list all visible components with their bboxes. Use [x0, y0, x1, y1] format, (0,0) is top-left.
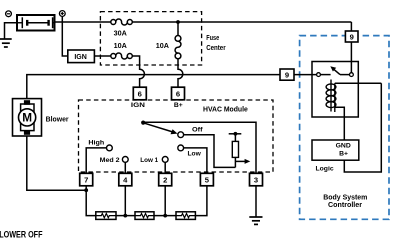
svg-text:Controller: Controller: [328, 202, 362, 209]
wire coil top to B+ rail: [335, 82, 382, 84]
wire module resistor top lead: [234, 134, 236, 142]
node module resistor top: [234, 132, 238, 136]
wire module resistor bottom lead: [234, 157, 236, 167]
resistor R3: [176, 212, 195, 220]
module resistor (speed control): [232, 141, 238, 157]
wire Off contact to module resistor: [184, 135, 236, 168]
wire coil bottom to logic module: [335, 107, 345, 140]
relay armature: [334, 69, 340, 74]
node junction blower/pin7: [84, 188, 88, 192]
wire switch pivot to pin 3: [143, 122, 256, 173]
svg-text:Blower: Blower: [46, 115, 69, 124]
fuse 10A (IGN): [111, 53, 133, 59]
svg-text:7: 7: [84, 176, 88, 185]
wire pin 9 to relay contact: [350, 42, 352, 73]
svg-text:HVAC Module: HVAC Module: [203, 104, 248, 113]
contact Off: [178, 132, 184, 138]
svg-text:9: 9: [350, 32, 354, 41]
wire top rail after 30A fuse: [132, 21, 351, 23]
svg-text:Low 1: Low 1: [140, 157, 158, 164]
wire Med2 contact to pin 4: [124, 162, 126, 173]
svg-text:Off: Off: [192, 126, 203, 133]
relay fixed contact: [317, 73, 321, 77]
logic module box: [312, 140, 359, 160]
wire Low1 contact to pin 2: [164, 162, 166, 173]
wire resistor R1 to R2: [116, 215, 135, 217]
relay box: [312, 62, 358, 118]
svg-text:Logic: Logic: [316, 165, 334, 172]
IGN switch box: [68, 50, 95, 63]
wire speed signal arrow: [235, 160, 246, 162]
wire pin 9 to relay fixed contact: [294, 74, 317, 76]
contact Low: [178, 145, 184, 151]
svg-text:IGN: IGN: [131, 102, 145, 109]
fuse 10A (center, vertical): [175, 36, 181, 59]
pin 9 (left): [280, 69, 294, 80]
svg-text:Fuse: Fuse: [206, 35, 219, 42]
resistor R1: [96, 212, 116, 220]
wire Low contact to pin 5: [184, 148, 207, 173]
pin 3: [250, 173, 263, 186]
pin 9 (top): [345, 31, 358, 42]
ground (pin 3): [249, 217, 262, 224]
svg-text:Med 2: Med 2: [100, 157, 120, 164]
wire B+ rail to logic module: [344, 83, 381, 172]
node junction pin2 bus: [163, 214, 167, 218]
pin 2: [159, 173, 172, 186]
wire pin 7 down to resistor bus: [86, 186, 96, 216]
svg-text:Center: Center: [206, 45, 226, 52]
svg-text:M: M: [22, 110, 32, 124]
wire relay fixed contact stub: [321, 74, 331, 76]
relay common contact: [350, 73, 354, 77]
svg-text:GND: GND: [336, 143, 351, 150]
pin 6 IGN: [133, 87, 146, 100]
wire resistor R2 to R3: [154, 215, 176, 217]
pin 6 B+: [172, 87, 185, 100]
switch armature (to Off): [143, 123, 172, 132]
wire battery positive top rail to relay: [55, 21, 111, 23]
svg-text:Body System: Body System: [323, 195, 367, 202]
wire pin 4 to resistor bus: [124, 186, 126, 216]
wire blower positive to pin 9 (left): [27, 75, 280, 101]
contact Med 2: [122, 157, 128, 163]
pin 4: [119, 173, 132, 186]
wire relay armature to common contact: [340, 74, 349, 76]
pin 7: [80, 173, 93, 186]
wire High contact to pin 7: [86, 148, 106, 173]
body system controller dashed box (blue): [300, 36, 389, 220]
node junction pin4 bus: [123, 214, 127, 218]
svg-text:10A: 10A: [156, 41, 169, 50]
svg-text:2: 2: [163, 176, 167, 185]
contact Low 1: [162, 157, 168, 163]
wire IGN switch to 10A fuse: [94, 55, 110, 57]
node switch pivot: [141, 121, 145, 125]
wire battery negative to ground: [5, 23, 18, 39]
svg-text:High: High: [88, 139, 104, 146]
wire pin 2 to resistor bus: [164, 186, 166, 216]
svg-text:9: 9: [285, 71, 289, 80]
blower motor: [13, 99, 42, 136]
relay coil: [326, 80, 336, 113]
svg-text:Low: Low: [188, 150, 202, 157]
battery negative terminal: [6, 11, 12, 17]
wire blower negative down and to pin 7: [27, 134, 86, 190]
battery: [17, 15, 55, 31]
wire battery positive down to IGN switch: [62, 17, 68, 56]
terminal bar above module resistor: [229, 133, 242, 135]
svg-text:10A: 10A: [114, 41, 127, 50]
wire 10A fuse to pin 6 IGN (with hop): [132, 56, 144, 87]
resistor R2: [135, 212, 154, 220]
svg-text:B+: B+: [339, 151, 348, 158]
wire pin 3 to ground: [255, 186, 257, 217]
fuse 30A: [111, 19, 133, 25]
battery positive terminal: [59, 11, 65, 17]
svg-text:IGN: IGN: [74, 52, 87, 61]
ground (battery): [0, 39, 12, 47]
wire top rail down to pin 9: [350, 22, 352, 31]
fuse center dashed box: [100, 12, 201, 65]
wire resistor R3 to pin 5: [195, 186, 207, 216]
contact High: [107, 145, 113, 151]
svg-text:30A: 30A: [114, 29, 127, 38]
wire top rail to 10A center fuse: [177, 22, 179, 36]
wire 10A center fuse to pin 6 B+ (with hop): [178, 59, 183, 87]
pin 5: [200, 173, 213, 186]
svg-text:3: 3: [254, 176, 258, 185]
svg-text:B+: B+: [174, 102, 183, 109]
svg-text:6: 6: [138, 89, 142, 98]
HVAC module dashed box: [79, 100, 274, 172]
svg-text:6: 6: [176, 89, 180, 98]
node junction top rail: [176, 20, 180, 24]
svg-text:BLOWER OFF: BLOWER OFF: [0, 229, 43, 239]
